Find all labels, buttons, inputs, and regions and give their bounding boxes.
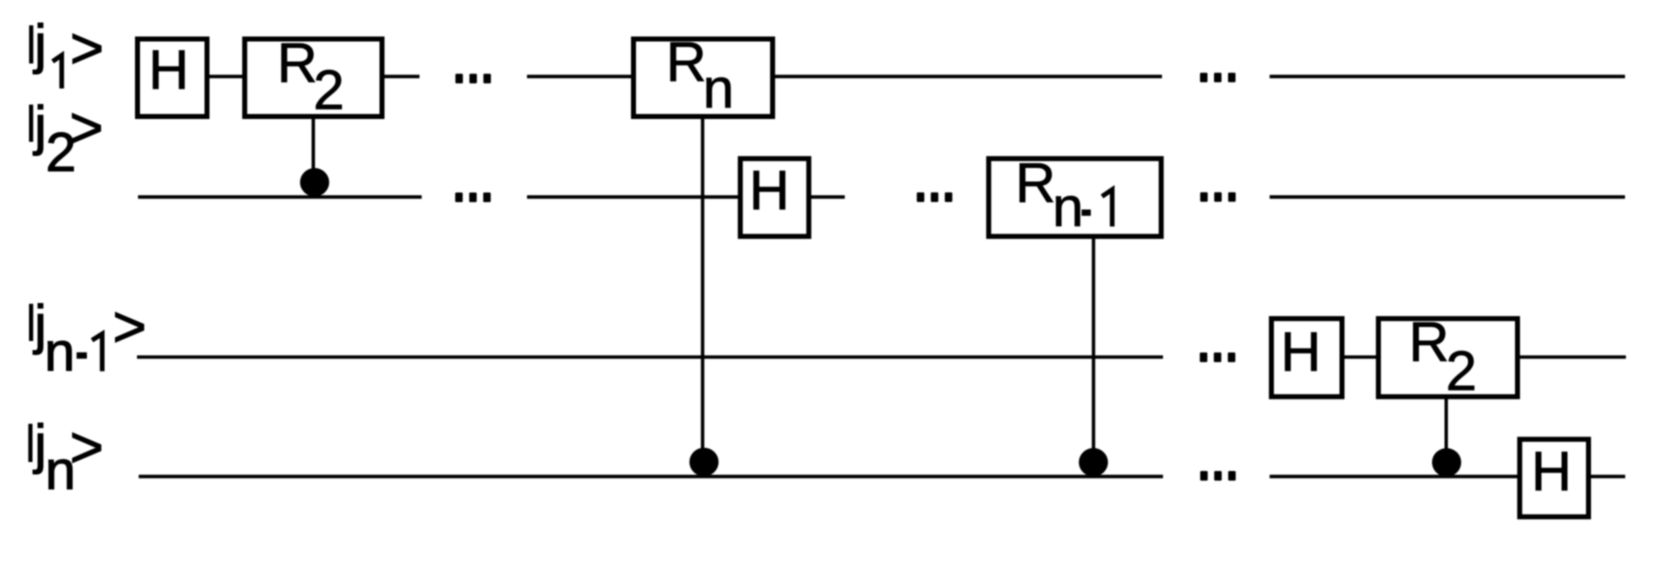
ellipsis q4 right: [1200, 471, 1236, 481]
wire q1: right segment: [1270, 75, 1625, 78]
wire q4: right segment: [1589, 475, 1626, 478]
wire q4: left long segment: [139, 475, 1163, 478]
wire q4: ellipsis to H: [1270, 475, 1520, 478]
svg-text:n: n: [44, 321, 75, 383]
gate H q3: [1271, 319, 1342, 397]
control dot on q4 (Rn): [689, 448, 718, 477]
svg-text:R: R: [1409, 310, 1449, 373]
gate Rn-1 q2: [989, 159, 1161, 237]
control line R2-q4: [1444, 397, 1447, 463]
svg-text:R: R: [277, 31, 317, 94]
wire q1: H to R2: [207, 75, 245, 78]
ellipsis q1 left: [455, 74, 491, 84]
svg-text:n: n: [1052, 175, 1083, 238]
svg-text:>: >: [113, 295, 147, 360]
svg-text:H: H: [1281, 320, 1321, 383]
gate H q4: [1520, 439, 1589, 517]
svg-text:>: >: [70, 16, 104, 81]
control dot on q2 (R2): [300, 168, 329, 197]
gate Rn q1: [634, 39, 773, 117]
label ket j1: bar: [29, 25, 33, 63]
subscript 1 in gate Rn-1 q2: [1102, 190, 1112, 227]
gate R2 q3: [1378, 319, 1517, 397]
svg-text:>: >: [70, 415, 104, 480]
gate R2 q1: [245, 39, 382, 117]
svg-text:j: j: [32, 13, 46, 75]
svg-text:R: R: [666, 30, 706, 93]
wire q1: Rn to ellipsis: [773, 75, 1162, 78]
subscript hyphen in gate Rn-1 q2: [1082, 210, 1091, 216]
wire q2: ellipsis to H: [527, 195, 740, 198]
label ket j2: bar: [29, 105, 33, 142]
wire q3: right segment: [1518, 355, 1626, 358]
ellipsis q3 right: [1200, 353, 1236, 363]
control dot on q4 (Rn-1): [1079, 448, 1108, 477]
wire q2: left segment: [138, 195, 422, 198]
label ket j1: subscript 1: [53, 55, 62, 88]
control line R2-q2: [312, 116, 315, 182]
svg-text:>: >: [70, 96, 104, 161]
svg-text:2: 2: [1446, 339, 1477, 402]
wire q1: ellipsis to Rn: [527, 75, 634, 78]
label ket jn-1: subscript 1: [92, 334, 102, 371]
ellipsis q2 middle: [917, 192, 953, 202]
wire q2: right segment: [1270, 195, 1625, 198]
svg-text:H: H: [749, 158, 789, 221]
control line Rn-q4: [701, 117, 704, 462]
control line Rn-1-q4: [1092, 236, 1095, 462]
ellipsis q2 left: [455, 193, 491, 203]
label ket jn-1: bar: [29, 304, 33, 341]
ellipsis q2 right: [1200, 192, 1236, 202]
svg-text:j: j: [32, 94, 46, 156]
gate H q2: [740, 159, 809, 237]
svg-text:H: H: [1531, 440, 1571, 503]
wire q3: H to R2: [1342, 355, 1378, 358]
wire q3: left long segment: [137, 355, 1163, 358]
wire q2: H to ellipsis: [809, 195, 845, 198]
ellipsis q1 right: [1200, 73, 1236, 83]
svg-text:n: n: [703, 57, 734, 120]
label ket jn-1: subscript hyphen: [77, 352, 87, 358]
label ket jn: bar: [28, 424, 32, 462]
control dot on q4 (R2): [1432, 448, 1461, 477]
svg-text:2: 2: [313, 58, 344, 121]
svg-text:R: R: [1015, 151, 1055, 214]
gate H q1: [138, 39, 208, 117]
svg-text:H: H: [149, 38, 189, 101]
wire q1: R2 to ellipsis: [382, 75, 420, 78]
